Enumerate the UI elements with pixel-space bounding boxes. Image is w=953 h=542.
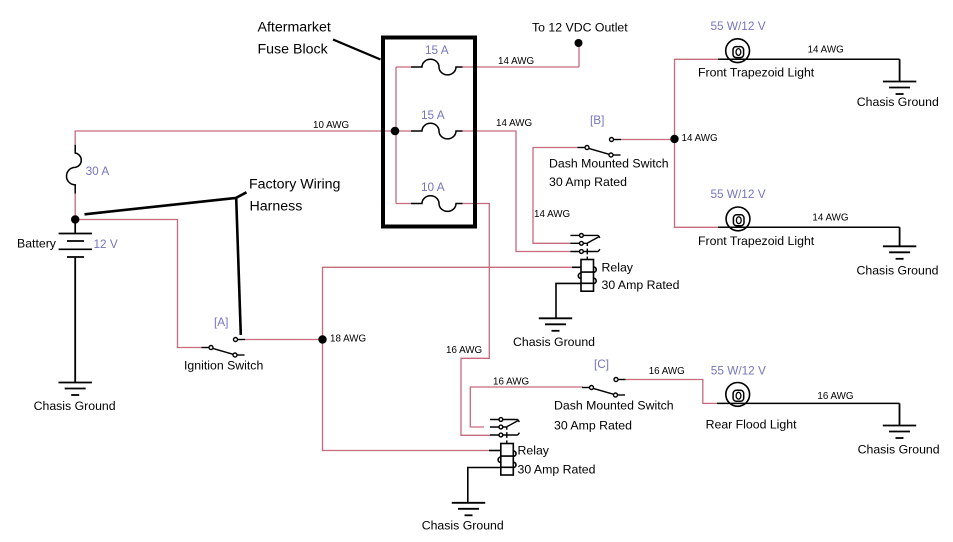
svg-text:Front Trapezoid Light: Front Trapezoid Light [698, 65, 815, 79]
wire switch S2 out to node B [621, 139, 672, 141]
wire ignition switch to node 18AWG [245, 339, 323, 341]
svg-text:Dash Mounted Switch: Dash Mounted Switch [554, 399, 674, 413]
aftermarket fuse block rectangle [383, 38, 475, 227]
svg-text:Ignition Switch: Ignition Switch [184, 359, 263, 373]
svg-text:Factory Wiring: Factory Wiring [249, 177, 340, 193]
battery BT1 [59, 220, 92, 258]
svg-text:10 AWG: 10 AWG [313, 120, 349, 131]
svg-text:14 AWG: 14 AWG [496, 118, 532, 129]
svg-text:Relay: Relay [602, 260, 634, 274]
factory wiring harness lines [85, 192, 247, 335]
node A junction 18 AWG [318, 335, 326, 343]
svg-text:Chasis Ground: Chasis Ground [34, 399, 116, 413]
lamp L1 front trapezoid light [718, 39, 900, 63]
svg-text:Chasis Ground: Chasis Ground [858, 443, 940, 457]
wire fuse F3 to relay K1 common [462, 131, 571, 252]
svg-text:15 A: 15 A [425, 43, 449, 57]
ground chassis relay K2 [452, 503, 485, 516]
fuse F4 10 A [411, 196, 463, 212]
svg-text:Harness: Harness [250, 198, 303, 214]
ground chassis lamp L3 [883, 403, 916, 438]
svg-text:Chasis Ground: Chasis Ground [513, 335, 595, 349]
ground chassis relay K1 [539, 318, 572, 331]
wire node B to lamp L2 [675, 139, 719, 227]
wire relay K2 armature to switch S3 [470, 387, 583, 427]
svg-text:55 W/12 V: 55 W/12 V [711, 364, 766, 378]
lamp L3 rear flood light [717, 383, 900, 407]
svg-text:14 AWG: 14 AWG [498, 56, 534, 67]
svg-text:30 A: 30 A [86, 164, 110, 178]
svg-text:Fuse Block: Fuse Block [258, 42, 329, 58]
ignition switch S1 [202, 338, 246, 358]
svg-text:Chasis Ground: Chasis Ground [422, 519, 504, 533]
dash switch S2 [B] [578, 138, 622, 158]
lamp L2 front trapezoid light [718, 207, 900, 231]
svg-text:To 12 VDC Outlet: To 12 VDC Outlet [532, 21, 628, 35]
svg-text:[A]: [A] [214, 315, 228, 329]
svg-text:14 AWG: 14 AWG [808, 44, 844, 55]
svg-text:10 A: 10 A [421, 180, 445, 194]
svg-text:Chasis Ground: Chasis Ground [857, 95, 939, 109]
wire switch S2 to relay K1 armature [533, 148, 578, 244]
wire node B to lamp L1 [675, 59, 719, 139]
relay K1 contacts [570, 234, 600, 260]
svg-text:55 W/12 V: 55 W/12 V [711, 187, 766, 201]
svg-text:12 V: 12 V [94, 237, 118, 251]
relay K2 coil [468, 444, 516, 503]
svg-text:55 W/12 V: 55 W/12 V [711, 19, 766, 33]
svg-text:Front Trapezoid Light: Front Trapezoid Light [698, 234, 815, 248]
wire switch S3 to lamp L3 [624, 380, 717, 404]
ground chassis battery [59, 257, 92, 395]
svg-text:Relay: Relay [518, 444, 550, 458]
svg-text:16 AWG: 16 AWG [649, 366, 685, 377]
svg-text:[C]: [C] [594, 357, 609, 371]
node battery positive [71, 215, 79, 223]
svg-text:15 A: 15 A [421, 108, 445, 122]
wire fuse F2 to 12VDC outlet [462, 46, 579, 67]
wire fuse F4 to relay K2 common [461, 204, 490, 436]
svg-text:[B]: [B] [590, 113, 604, 127]
relay K1 coil [556, 260, 596, 319]
dash switch S3 [C] [582, 378, 626, 398]
wire node to relay K2 coil [323, 340, 490, 451]
wire battery to fuse block 10 AWG [75, 131, 395, 220]
relay K2 contacts [490, 418, 520, 444]
svg-text:30 Amp Rated: 30 Amp Rated [602, 278, 680, 292]
fuse F2 15 A [411, 59, 463, 75]
svg-text:14 AWG: 14 AWG [534, 209, 570, 220]
svg-text:30 Amp Rated: 30 Amp Rated [549, 175, 627, 189]
pointer line fuse block label [333, 40, 381, 60]
wire node to relay K1 coil [323, 267, 573, 339]
node fuse block input [391, 127, 400, 136]
svg-text:Dash Mounted Switch: Dash Mounted Switch [549, 157, 669, 171]
svg-text:14 AWG: 14 AWG [812, 213, 848, 224]
svg-text:Battery: Battery [17, 237, 57, 251]
svg-text:16 AWG: 16 AWG [817, 391, 853, 402]
fuse F1 30 A [67, 145, 82, 194]
svg-text:18 AWG: 18 AWG [330, 333, 366, 344]
wire fuse block internal bus [396, 67, 411, 204]
svg-text:Rear Flood Light: Rear Flood Light [706, 417, 797, 431]
wire battery to ignition switch [75, 220, 201, 348]
svg-text:Chasis Ground: Chasis Ground [857, 263, 939, 277]
node B junction 14 AWG [670, 135, 678, 143]
fuse F3 15 A [411, 123, 463, 139]
svg-text:14 AWG: 14 AWG [682, 133, 718, 144]
svg-text:30 Amp Rated: 30 Amp Rated [554, 418, 632, 432]
ground chassis lamp L1 [883, 59, 916, 94]
node 12 VDC outlet [575, 39, 583, 47]
svg-text:16 AWG: 16 AWG [493, 376, 529, 387]
svg-text:30 Amp Rated: 30 Amp Rated [518, 463, 596, 477]
svg-text:Aftermarket: Aftermarket [258, 20, 331, 36]
svg-text:16 AWG: 16 AWG [446, 345, 482, 356]
ground chassis lamp L2 [883, 227, 916, 258]
